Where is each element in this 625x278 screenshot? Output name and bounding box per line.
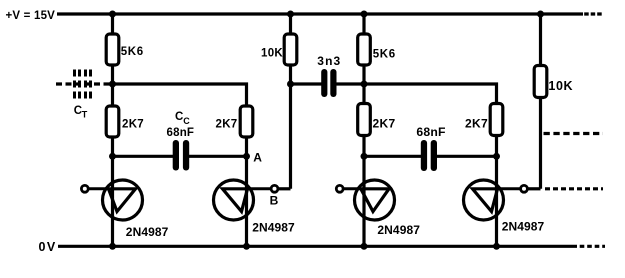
wire v1 rail to 5K6 R1: [111, 14, 114, 36]
terminal Q4 gate: [521, 185, 528, 192]
svg-text:2K7: 2K7: [465, 117, 488, 131]
node top rail 10K right: [537, 11, 544, 18]
wire dashed output mid right: [544, 132, 604, 135]
node 0V rail Q3: [361, 243, 368, 250]
terminal B: [271, 185, 278, 192]
resistor R2 2K7: [106, 106, 119, 137]
capacitor 3n3 plates: [321, 69, 327, 97]
wire top supply rail: [57, 12, 583, 15]
wire dashed gate line continuation right: [545, 187, 603, 190]
node A: [243, 153, 250, 160]
wire v4 R7 through Q4 to 0V rail: [495, 134, 498, 247]
node v1 y156: [109, 153, 116, 160]
svg-text:C: C: [175, 111, 183, 123]
node 0V rail Q2: [243, 243, 250, 250]
wire v1 5K6 to 2K7 through C_T node: [111, 63, 114, 108]
wire 10K node to 3n3 left plate: [291, 82, 323, 85]
svg-text:2N4987: 2N4987: [126, 225, 169, 239]
wire v3 5K6 to 2K7 R6 through junction: [362, 63, 365, 106]
svg-text:2K7: 2K7: [216, 118, 238, 130]
wire node v3 to 68nF left plate: [364, 155, 422, 158]
node top rail 10K left: [287, 11, 294, 18]
resistor R8 10K: [534, 66, 547, 98]
wire v1 2K7 through Q1 to 0V rail: [111, 135, 114, 246]
svg-text:0V: 0V: [39, 240, 57, 254]
wire Q4 terminal to 10K R8 line: [528, 187, 541, 190]
svg-text:2K7: 2K7: [373, 117, 396, 131]
svg-text:+V = 15V: +V = 15V: [6, 10, 56, 22]
wire 10K R8 bottom down to gate level: [539, 97, 542, 189]
node 10K left bottom: [287, 81, 294, 88]
svg-text:10K: 10K: [548, 79, 573, 93]
svg-text:2N4987: 2N4987: [252, 221, 295, 235]
resistor R1 5K6: [106, 34, 119, 65]
wire 3n3 right plate to v3 junction and on to v4: [336, 84, 497, 106]
wire C_C right plate to node A: [188, 155, 247, 158]
node v3 y156: [361, 153, 368, 160]
svg-text:5K6: 5K6: [121, 46, 144, 58]
resistor R6 2K7: [358, 104, 371, 136]
svg-text:2N4987: 2N4987: [377, 223, 420, 237]
node top rail v3: [361, 11, 368, 18]
resistor R5 5K6: [358, 34, 371, 65]
node 0V rail Q1: [109, 243, 116, 250]
wire rail to 10K R8: [539, 14, 542, 67]
node C_T junction: [109, 81, 116, 88]
node v3 cross junction: [361, 81, 368, 88]
svg-text:C: C: [183, 116, 190, 126]
node v4 y156: [493, 153, 500, 160]
wire top rail dashed continuation: [584, 12, 603, 15]
svg-text:A: A: [253, 150, 262, 164]
wire rail to 10K R4: [289, 14, 292, 36]
wire v3 2K7 through Q3 to 0V rail: [362, 134, 365, 247]
transistor Q1 2N4987: [88, 180, 143, 220]
wire B terminal to 10K line: [278, 187, 291, 190]
wire 68nF right plate to node v4: [436, 155, 497, 158]
svg-text:68nF: 68nF: [416, 125, 445, 139]
transistor Q4 2N4987: [464, 180, 521, 220]
wire bottom 0V rail: [58, 245, 577, 248]
capacitor C_C plates: [173, 140, 179, 171]
svg-text:2K7: 2K7: [122, 118, 144, 130]
resistor R4 10K: [284, 34, 297, 65]
wire node v1 to C_C left plate: [113, 155, 175, 158]
transistor Q3 2N4987: [343, 180, 394, 220]
resistor R7 2K7: [490, 104, 503, 136]
terminal Q3 gate: [336, 185, 343, 192]
capacitor 68nF second plates: [421, 140, 427, 171]
svg-text:T: T: [82, 109, 88, 119]
svg-text:10K: 10K: [261, 48, 283, 60]
transistor Q2 2N4987: [214, 180, 272, 220]
svg-text:2N4987: 2N4987: [502, 219, 545, 233]
capacitor C_T dashed plates: [75, 70, 91, 100]
wire v3 rail to 5K6 R5: [362, 14, 365, 36]
terminal Q1 gate: [81, 185, 88, 192]
wire 10K bottom down to B level: [289, 63, 292, 189]
wire bottom rail dashed continuation: [580, 245, 605, 248]
wire C_T dashed horizontal: [56, 82, 110, 85]
node 0V rail Q4: [493, 243, 500, 250]
wire v2 R3 through node A and Q2 to 0V rail: [245, 135, 248, 246]
svg-text:B: B: [270, 194, 279, 208]
wire cross-coupling node1 to R3 top: [113, 84, 247, 108]
resistor R3 2K7: [240, 106, 253, 137]
svg-text:68nF: 68nF: [167, 127, 195, 139]
node top rail v1: [109, 11, 116, 18]
svg-text:3n3: 3n3: [317, 54, 341, 68]
svg-text:5K6: 5K6: [373, 49, 396, 61]
